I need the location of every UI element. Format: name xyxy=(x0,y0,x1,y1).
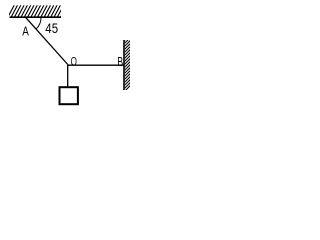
angle arc at A xyxy=(36,18,41,29)
wall support bar xyxy=(123,40,125,90)
wall hatching xyxy=(124,35,130,92)
wire O-B (horizontal rod to wall) xyxy=(68,64,125,66)
svg-text:A: A xyxy=(22,23,29,38)
wire A-O (rope from ceiling to node O) xyxy=(26,18,68,65)
ceiling hatching xyxy=(8,5,67,17)
svg-text:B: B xyxy=(117,54,123,69)
ceiling support bar xyxy=(10,16,62,18)
svg-text:45: 45 xyxy=(45,21,58,36)
wire O to weight (vertical rope) xyxy=(67,65,69,87)
svg-text:O: O xyxy=(71,55,77,69)
weight box xyxy=(60,87,78,104)
